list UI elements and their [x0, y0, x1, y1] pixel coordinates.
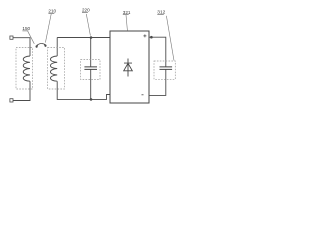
- terminal T2 (bottom-left input): [10, 99, 13, 102]
- wire top-left: terminal to coil L1 top: [13, 38, 30, 56]
- leader line for label 312: [166, 16, 174, 61]
- junction dot at block output: [150, 36, 153, 39]
- capacitor C1 (label 220) top lead: [90, 38, 92, 67]
- dashed box around C2: [154, 61, 175, 79]
- arrowhead right of coupling arc: [44, 44, 47, 47]
- dashed box around L1: [16, 48, 33, 90]
- diode D1 inside block: [124, 59, 133, 77]
- label 321: [123, 10, 131, 15]
- top wire: L2 top to rectifier block: [57, 37, 110, 39]
- capacitor C2 bottom lead and wire back to block: [149, 69, 166, 95]
- dashed box around C1: [81, 60, 100, 80]
- rectifier block U1 (label 321): [110, 31, 149, 103]
- inductor L2 (secondary coil, label 210) top lead: [56, 38, 58, 57]
- terminal T1 (top-left input): [10, 36, 13, 39]
- leader line for label 220: [86, 14, 90, 36]
- junction dot bottom wire / C1: [90, 98, 93, 101]
- label 150: [22, 26, 30, 31]
- capacitor C1 bottom lead: [90, 69, 92, 99]
- leader line for label 150: [28, 31, 35, 44]
- dashed box around L2: [48, 48, 65, 90]
- plus mark: [143, 34, 146, 37]
- junction dot top wire / C1: [90, 36, 93, 39]
- leader line for label 210: [45, 14, 51, 43]
- label 220: [82, 8, 90, 13]
- svg-text:321: 321: [123, 10, 131, 15]
- minus mark: [142, 94, 144, 96]
- arrowhead left of coupling arc: [35, 45, 38, 48]
- capacitor C2 (label 312) plates: [160, 67, 173, 70]
- inductor L1 (primary coil, label 150): [23, 56, 30, 81]
- svg-text:150: 150: [22, 26, 30, 31]
- svg-text:220: 220: [82, 8, 90, 13]
- capacitor C1 plates: [84, 67, 97, 70]
- svg-text:312: 312: [157, 10, 165, 16]
- svg-text:210: 210: [48, 9, 56, 14]
- leader line for label 321: [126, 15, 127, 31]
- label 210: [48, 9, 56, 14]
- label 312: [157, 10, 165, 16]
- coupling arc arrow between L1 and L2: [36, 44, 47, 47]
- wire bottom-left: coil L1 bottom to terminal: [13, 81, 30, 100]
- inductor L2 loops: [50, 56, 57, 81]
- wire block to C2 top: [149, 37, 166, 67]
- wire L2 bottom to bottom rail: [57, 81, 110, 99]
